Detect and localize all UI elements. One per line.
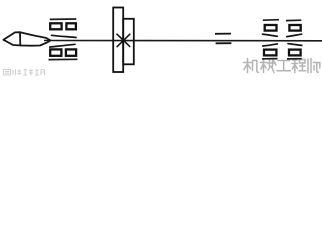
engagement line G4b (288, 44, 302, 46)
fixed-joint star X (117, 34, 130, 46)
sliding spline dash lower (216, 42, 232, 44)
gear block G3 cap right (286, 19, 301, 21)
gear block G1 top cap (50, 18, 76, 20)
pulley P1 outer rectangle (113, 8, 123, 73)
gear block G4 cap right (287, 58, 302, 60)
sliding spline dash upper (215, 33, 231, 35)
watermark big bottom-right: 械 (261, 59, 277, 73)
gear block G2 bottom cap (49, 58, 78, 60)
watermark small bottom-left (4, 69, 45, 75)
gear G3a (top-left box) (265, 25, 277, 31)
pulley P2 inner rectangle (123, 19, 134, 65)
gear G1b (top-right box) (66, 23, 76, 29)
gear G4a (bottom-left box) (264, 50, 276, 56)
engagement line upper-left (52, 35, 77, 37)
gear G2a (bottom-left box) (50, 49, 61, 55)
shaft centerline (44, 40, 322, 42)
motor M1 (left arrow body) (4, 32, 51, 45)
engagement line G4a (263, 44, 278, 46)
gear G3b (top-right box) (289, 25, 300, 31)
gear G2b (bottom-right box) (66, 49, 76, 55)
engagement line G3a (263, 34, 278, 36)
engagement line G3b (287, 34, 302, 36)
gear G4b (bottom-right box) (289, 50, 301, 56)
engagement line lower-left (50, 44, 75, 47)
watermark big bottom-right: 机 (244, 59, 259, 73)
watermark big bottom-right: 程 (292, 59, 306, 73)
watermark big bottom-right: 师 (308, 59, 320, 73)
watermark big bottom-right: 工 (277, 61, 291, 71)
gear block G4 cap left (262, 58, 278, 60)
gear block G3 cap left (263, 19, 279, 22)
gear G1a (top-left box) (50, 23, 61, 29)
